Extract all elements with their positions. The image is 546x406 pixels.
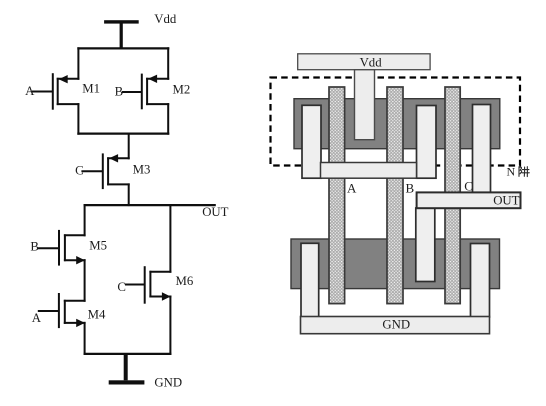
svg-text:Vdd: Vdd (360, 55, 383, 69)
svg-text:A: A (347, 180, 357, 195)
wire right drop M2 drain to pair rail (167, 103, 169, 135)
wire pair bottom rail (77, 133, 169, 135)
wire schematic bottom rail (84, 353, 172, 355)
svg-text:M4: M4 (88, 308, 106, 322)
metal M2 drain / M3 source contact (upper middle) (417, 106, 437, 179)
metal A-B drain connection bar (321, 163, 417, 179)
ground symbol (109, 354, 145, 385)
metal GND contact (lower left) (301, 243, 319, 317)
svg-text:B: B (30, 240, 39, 254)
wire M3 drain to OUT rail (128, 183, 130, 206)
svg-text:M1: M1 (82, 82, 100, 96)
svg-text:M3: M3 (133, 162, 151, 176)
transistor M2 (PMOS, gate B) (122, 74, 169, 110)
N-well dashed boundary (271, 78, 521, 166)
transistor M4 (NMOS, gate A) (38, 293, 86, 328)
wire OUT rail (84, 204, 216, 206)
metal M3 drain contact (upper right) (473, 105, 491, 194)
transistor M3 (PMOS, gate C) (81, 153, 129, 189)
svg-text:B: B (406, 180, 415, 195)
P-diffusion region (294, 99, 500, 149)
poly gate column A (329, 87, 345, 304)
metal OUT bar (417, 192, 521, 208)
poly gate column C (445, 87, 460, 304)
svg-text:A: A (32, 311, 42, 325)
wire left drop Vdd to M1 source (77, 47, 79, 80)
Vdd power symbol (104, 20, 139, 48)
svg-text:OUT: OUT (202, 205, 228, 219)
wire left drop M1 drain to pair rail (77, 103, 79, 135)
svg-text:N: N (507, 165, 516, 179)
svg-text:A: A (25, 84, 35, 98)
svg-text:C: C (464, 178, 473, 193)
metal GND rail (301, 317, 490, 334)
wire OUT rail to M5 drain (84, 204, 86, 236)
svg-text:Vdd: Vdd (154, 12, 177, 26)
metal OUT drop to N-diffusion (lower middle) (416, 208, 435, 282)
N-diffusion region (291, 239, 500, 289)
wire OUT rail to M6 drain (169, 204, 171, 273)
wire right drop Vdd to M2 source (167, 47, 169, 80)
svg-text:C: C (75, 163, 84, 177)
svg-text:GND: GND (154, 375, 182, 389)
svg-text:OUT: OUT (493, 193, 519, 207)
svg-text:M6: M6 (176, 274, 194, 288)
wire M4 source to bottom rail (84, 322, 86, 355)
metal Vdd stem contact (355, 70, 375, 140)
svg-text:GND: GND (382, 318, 410, 332)
transistor M5 (NMOS, gate B) (37, 230, 86, 266)
metal Vdd rail (298, 54, 430, 70)
svg-text:M5: M5 (89, 239, 107, 253)
metal M1 drain contact (upper left) (302, 105, 321, 178)
svg-text:B: B (115, 84, 124, 98)
wire M6 source to bottom rail (169, 296, 171, 356)
metal GND contact (lower right) (471, 244, 490, 318)
transistor M1 (PMOS, gate A) (32, 73, 79, 110)
wire top rail (77, 47, 169, 49)
label N-well "N 阱" (507, 165, 530, 179)
poly gate column B (387, 87, 403, 304)
svg-text:C: C (117, 280, 126, 294)
wire pair rail to M3 source (128, 133, 130, 160)
svg-text:M2: M2 (173, 82, 191, 96)
wire M5 source to M4 drain (84, 259, 86, 302)
transistor M6 (NMOS, gate C) (125, 266, 171, 304)
